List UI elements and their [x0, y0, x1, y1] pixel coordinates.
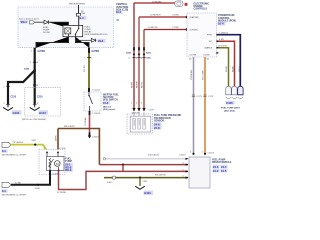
central junction box CJB dashed outline — [18, 7, 114, 48]
svg-text:985 DB/PK: 985 DB/PK — [64, 126, 75, 128]
svg-text:C270B: C270B — [38, 50, 46, 53]
svg-text:RD/YE: RD/YE — [142, 81, 144, 88]
svg-text:FPM: FPM — [207, 35, 212, 37]
svg-text:DIODE: DIODE — [43, 32, 50, 34]
svg-text:2 C1013: 2 C1013 — [92, 113, 101, 115]
wire H3: red feed to PCM VPWR — [144, 29, 187, 31]
svg-text:G104: G104 — [13, 111, 20, 115]
svg-text:15A: 15A — [81, 12, 85, 15]
braces under terminals — [226, 97, 243, 98]
svg-text:2: 2 — [91, 58, 92, 60]
pump motor M — [55, 161, 61, 167]
diode D2 relay suppression diode — [76, 39, 92, 41]
svg-text:1 C1013: 1 C1013 — [92, 90, 101, 92]
svg-text:RD-8: RD-8 — [65, 168, 72, 172]
svg-text:4 C408: 4 C408 — [52, 173, 59, 175]
svg-text:Hot at all times: Hot at all times — [69, 3, 86, 6]
wire: PCM bottom gray — [193, 57, 195, 154]
wire H1: red feed to connector C1368 — [134, 2, 175, 4]
pin dots into FPDM — [192, 153, 194, 155]
ground G100 — [7, 105, 9, 108]
svg-text:C435: C435 — [226, 101, 233, 105]
svg-text:2: 2 — [4, 103, 5, 105]
IFS switch symbol — [89, 92, 93, 111]
fuel pump driver module box — [189, 157, 210, 188]
svg-text:(WITH 5.4L CNG ENGINE): (WITH 5.4L CNG ENGINE) — [22, 119, 46, 121]
fuel tank pressure transducer dashed box — [127, 114, 153, 134]
svg-text:5: 5 — [183, 176, 184, 178]
relay: fuel pump relay box — [63, 25, 83, 36]
wire: PCM BARO olive — [217, 48, 229, 86]
connector ticks on ground wires — [6, 85, 36, 104]
svg-text:2: 2 — [136, 58, 137, 60]
svg-text:16 RD/BK: 16 RD/BK — [152, 1, 162, 3]
svg-text:24-4: 24-4 — [221, 165, 227, 169]
svg-text:4: 4 — [183, 163, 184, 165]
svg-text:19 DG/YE: 19 DG/YE — [218, 45, 228, 47]
svg-text:926 OG/BK: 926 OG/BK — [203, 70, 205, 80]
svg-text:10-2: 10-2 — [213, 169, 219, 173]
svg-text:20 RD/YE: 20 RD/YE — [148, 27, 158, 29]
wire L1: light return — [106, 158, 189, 160]
svg-text:RD/BK: RD/BK — [132, 81, 134, 88]
svg-text:940 DB/OG: 940 DB/OG — [148, 155, 160, 157]
svg-text:C175E: C175E — [172, 27, 179, 29]
fuel level sender zigzag — [49, 159, 54, 168]
svg-text:INERTIA FUEL: INERTIA FUEL — [103, 93, 119, 96]
svg-text:29 YE/WH: 29 YE/WH — [13, 142, 24, 144]
inline connector on gray wire — [192, 95, 195, 96]
svg-text:(VPWR): (VPWR) — [190, 30, 198, 32]
svg-text:361 DG: 361 DG — [84, 65, 86, 72]
svg-text:C175: C175 — [197, 96, 203, 98]
junction to ground — [139, 177, 141, 179]
wire: hot feed into fuse — [78, 5, 80, 14]
wire: relay coil return to CJB exit — [36, 37, 69, 48]
svg-text:6: 6 — [183, 169, 184, 171]
svg-text:1 DB/OG: 1 DB/OG — [219, 32, 228, 34]
svg-text:5: 5 — [85, 58, 86, 60]
connector caps on red verticals — [133, 47, 135, 50]
dashed option box around right ground — [25, 88, 61, 116]
splice S240 — [133, 53, 135, 55]
svg-text:8-4: 8-4 — [2, 149, 6, 153]
relay coil — [65, 28, 71, 34]
svg-text:INSTRUMENT CLUSTER: INSTRUMENT CLUSTER — [2, 154, 26, 156]
wire: right ground run — [34, 71, 36, 105]
svg-text:S-612: S-612 — [107, 182, 113, 184]
wire: fuse to relay — [78, 16, 80, 25]
svg-text:6: 6 — [37, 103, 38, 105]
svg-text:10-4: 10-4 — [218, 22, 224, 26]
wire: yellow sender signal — [11, 145, 48, 153]
svg-text:29-6: 29-6 — [98, 39, 104, 43]
wire: diagonal branch to left ground — [8, 70, 35, 104]
svg-text:3: 3 — [141, 58, 142, 60]
wire L2: maroon from pump sender — [99, 164, 188, 166]
wire: red vertical v2 — [138, 17, 140, 111]
svg-text:G104: G104 — [39, 111, 46, 115]
PCM powertrain control module box — [187, 13, 217, 57]
svg-text:DG/YE: DG/YE — [226, 65, 228, 72]
wire: olive run CJB to IFS — [88, 48, 90, 53]
svg-text:(4X2, 4X4): (4X2, 4X4) — [224, 109, 235, 112]
splice S251 — [34, 69, 36, 71]
svg-text:INSTRUMENT CLUSTER: INSTRUMENT CLUSTER — [2, 194, 26, 196]
svg-text:DB/PK: DB/PK — [56, 135, 58, 141]
svg-text:10-2: 10-2 — [116, 11, 122, 14]
svg-text:5: 5 — [30, 62, 31, 64]
wire: relay output to olive exit — [76, 37, 90, 48]
FPDM pin arrows — [186, 158, 189, 160]
wire: black ground to cluster — [11, 171, 50, 185]
svg-text:G401: G401 — [144, 191, 151, 195]
wire: red vertical v1 — [133, 3, 135, 111]
wire: PCM FP red — [217, 41, 235, 86]
splice S241 — [138, 53, 140, 55]
inline connector on orange wire — [203, 95, 206, 96]
svg-text:FUEL PUMP ASSY: FUEL PUMP ASSY — [221, 107, 241, 110]
wire: PCM FPM navy — [217, 35, 241, 86]
svg-text:SM-4: SM-4 — [21, 20, 28, 24]
svg-text:570 BK/WH: 570 BK/WH — [191, 69, 193, 80]
svg-text:C175B: C175B — [190, 55, 197, 57]
svg-text:C210: C210 — [37, 96, 43, 98]
wire: IFS to pump connector pink — [89, 111, 91, 115]
svg-text:(SEE FUSE/RELAY BOX): (SEE FUSE/RELAY BOX) — [85, 33, 108, 36]
svg-text:(BARO): (BARO) — [205, 47, 213, 50]
svg-text:S240: S240 — [126, 52, 132, 55]
svg-text:CONTROLS: CONTROLS — [194, 8, 208, 11]
connector C1368 oval — [175, 1, 183, 7]
svg-text:C276: C276 — [149, 110, 155, 112]
FTP sensor inner box — [130, 116, 151, 132]
svg-text:6: 6 — [37, 85, 38, 87]
svg-text:S241: S241 — [146, 52, 152, 55]
off-page arrow into CJB — [30, 21, 35, 24]
wire: PCM bottom orange — [204, 57, 206, 154]
ground G101 — [34, 105, 36, 108]
ground G401 — [135, 186, 145, 189]
svg-text:57 BK: 57 BK — [15, 183, 21, 185]
svg-text:2: 2 — [4, 86, 5, 88]
svg-text:24-3: 24-3 — [213, 165, 219, 169]
pin arrows on PCM right edge — [217, 34, 219, 36]
terminal 1 olive — [226, 86, 231, 94]
svg-text:9-4: 9-4 — [80, 16, 84, 20]
fuse F6 15A — [76, 14, 80, 17]
svg-text:10-5: 10-5 — [221, 169, 227, 173]
svg-text:8-4: 8-4 — [2, 189, 6, 193]
svg-text:DRIVER MODULE: DRIVER MODULE — [212, 162, 232, 164]
splice circle S612 — [112, 176, 115, 179]
svg-text:C1023: C1023 — [92, 137, 99, 139]
svg-text:RD/WH: RD/WH — [137, 81, 139, 88]
instrument cluster arrow upper — [2, 142, 11, 147]
svg-text:C1522: C1522 — [179, 155, 186, 157]
splice S242 — [143, 53, 145, 55]
svg-text:8 RD: 8 RD — [219, 39, 224, 41]
electronic engine controls header — [185, 3, 188, 6]
svg-text:19 PK/BK: 19 PK/BK — [57, 192, 67, 194]
svg-text:DB/OG: DB/OG — [239, 65, 241, 72]
instrument cluster arrow lower — [2, 182, 11, 187]
svg-text:24-8: 24-8 — [154, 126, 160, 130]
diode D1 fuel pump diode — [44, 20, 49, 24]
wire: red vertical v3 — [143, 30, 145, 112]
wire diode to relay coil — [49, 22, 69, 28]
brown wire: sender to FPDM — [58, 129, 99, 165]
svg-text:C175B: C175B — [172, 15, 179, 17]
wire L4: olive ground — [104, 177, 188, 179]
svg-text:C210: C210 — [11, 96, 17, 98]
connector arrow C1023 — [88, 136, 91, 139]
svg-text:1: 1 — [129, 58, 130, 60]
svg-text:C175E: C175E — [203, 55, 210, 57]
svg-text:4 C405: 4 C405 — [59, 148, 66, 150]
relay switch — [69, 25, 79, 36]
svg-text:6: 6 — [37, 62, 38, 64]
inertia fuel shutoff switch dashed box — [84, 92, 101, 111]
wire: CJB ground exit bold black — [34, 48, 36, 72]
wire: pump power maroon U — [59, 171, 189, 190]
svg-text:C270B: C270B — [92, 50, 100, 53]
wire H2: red feed to PCM KAPWR — [139, 16, 187, 18]
wire to diode — [35, 21, 44, 23]
svg-text:C240: C240 — [146, 57, 151, 60]
svg-text:(KAPWR): (KAPWR) — [190, 16, 200, 19]
svg-text:20 RD/WH: 20 RD/WH — [150, 15, 161, 17]
FTP pin elements — [133, 118, 136, 129]
fuel pump and sender unit box — [47, 157, 65, 171]
connector arrows into FTP sensor — [132, 108, 135, 111]
svg-text:C175: C175 — [208, 96, 214, 98]
svg-text:S240: S240 — [24, 67, 30, 70]
fuel pump module dashed box — [39, 150, 65, 175]
svg-text:19 PK/BK: 19 PK/BK — [85, 117, 87, 126]
terminal 2 red — [232, 86, 237, 94]
svg-text:10-6: 10-6 — [103, 101, 109, 105]
svg-text:C1522: C1522 — [208, 152, 215, 154]
junction L2 to L3 — [122, 164, 124, 166]
svg-text:381 BK/YE: 381 BK/YE — [155, 175, 166, 177]
terminal 3 navy — [238, 86, 243, 94]
svg-text:RD/BK: RD/BK — [233, 65, 235, 72]
svg-text:(IFS) panel): (IFS) panel) — [103, 109, 115, 111]
